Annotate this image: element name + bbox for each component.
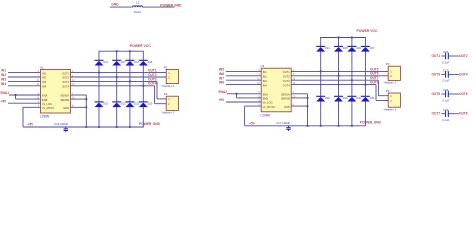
node IN6 (219, 72, 224, 76)
wire (226, 79, 261, 81)
junction (320, 125, 322, 127)
IC U2 L298N (41, 69, 71, 113)
value Header 2 (162, 111, 175, 115)
svg-text:L298N: L298N (261, 113, 271, 117)
capacitor C16 100uF (54, 122, 69, 132)
node OUT3 (432, 72, 441, 76)
diode D27 (361, 46, 375, 51)
capacitor C29 (443, 108, 449, 117)
svg-text:IN3: IN3 (263, 79, 268, 83)
junction (129, 126, 131, 128)
svg-text:OUT8: OUT8 (459, 112, 468, 116)
svg-text:D29: D29 (343, 97, 348, 100)
wire (244, 106, 246, 126)
svg-text:OUT1: OUT1 (148, 69, 157, 73)
wire (142, 51, 144, 60)
designator U2 (40, 65, 44, 69)
svg-text:C17 100uF: C17 100uF (276, 121, 291, 125)
svg-text:D23: D23 (148, 103, 153, 106)
connector P3 Header 2 (388, 66, 400, 80)
wire (71, 94, 87, 96)
svg-text:IN1: IN1 (1, 69, 6, 73)
wire (351, 38, 353, 47)
IC U3 L298N (261, 68, 291, 112)
diode D29 (334, 96, 348, 101)
node IN7 (219, 76, 224, 80)
node OUT5 (432, 92, 441, 96)
power port POWER VCC (357, 29, 378, 33)
wire (71, 76, 167, 78)
junction (306, 105, 308, 107)
svg-text:D21: D21 (121, 103, 126, 106)
node ENA2 (219, 90, 228, 94)
wire (236, 94, 238, 98)
node OUT3 (148, 77, 157, 81)
svg-text:OUT4: OUT4 (148, 82, 157, 86)
wire (448, 113, 459, 115)
svg-text:GND: GND (63, 106, 69, 110)
wire (364, 102, 366, 126)
wire (226, 70, 261, 72)
wire (226, 84, 261, 86)
designator P4 (386, 89, 390, 93)
svg-text:D20: D20 (103, 103, 108, 106)
svg-text:POWER_GND: POWER_GND (139, 122, 161, 126)
value 0.1uF (442, 98, 449, 102)
junction (116, 50, 118, 52)
junction (116, 126, 118, 128)
wire (441, 93, 445, 95)
wire (351, 102, 353, 126)
wire (320, 38, 322, 47)
diode D21 (112, 102, 126, 107)
wire (291, 70, 388, 72)
svg-text:D16: D16 (103, 61, 108, 64)
wire (110, 6, 133, 8)
value Header 2 (384, 81, 397, 85)
svg-text:OUT7: OUT7 (370, 76, 379, 80)
wire (8, 85, 41, 87)
wire (291, 84, 376, 86)
svg-text:ENA: ENA (42, 94, 48, 98)
wire (226, 75, 261, 77)
svg-text:C28: C28 (443, 88, 449, 92)
svg-text:ENB: ENB (42, 98, 48, 102)
node OUT1 (148, 69, 157, 73)
wire (143, 6, 175, 8)
diode D19 (139, 60, 153, 65)
diode D24 (316, 46, 330, 51)
node IN2 (1, 73, 6, 77)
wire (307, 94, 309, 126)
connector P2 Header 2 (166, 96, 178, 110)
wire (71, 72, 167, 74)
value 10uH (134, 10, 141, 14)
svg-text:IN2: IN2 (42, 76, 47, 80)
svg-text:SENSB: SENSB (281, 97, 290, 101)
svg-text:D17: D17 (121, 61, 126, 64)
node OUT5 (370, 67, 379, 71)
node IN4 (1, 82, 6, 86)
svg-text:L1: L1 (136, 1, 140, 5)
junction (351, 36, 353, 38)
svg-text:POWER VCC: POWER VCC (130, 44, 151, 48)
svg-text:0.1uF: 0.1uF (442, 118, 449, 122)
node IN3 (1, 78, 6, 82)
node +5V (1, 99, 8, 103)
wire (142, 107, 144, 127)
svg-text:GND: GND (111, 2, 119, 6)
svg-text:OUT2: OUT2 (283, 75, 290, 79)
svg-text:U3: U3 (260, 64, 264, 68)
svg-text:OUT3: OUT3 (432, 72, 441, 76)
value 0.1uF (442, 60, 449, 64)
wire POWER VCC rail (320, 37, 366, 39)
junction (85, 98, 87, 100)
wire (448, 73, 459, 75)
node OUT8 (459, 112, 468, 116)
power port POWER_GND (139, 122, 161, 126)
wire (116, 66, 118, 102)
wire (227, 93, 261, 95)
svg-text:D31: D31 (370, 97, 375, 100)
svg-text:Vs_MOTO: Vs_MOTO (42, 106, 54, 110)
svg-text:POWER VCC: POWER VCC (357, 29, 378, 33)
wire (9, 94, 41, 96)
wire (8, 102, 41, 104)
svg-text:ENA2: ENA2 (219, 90, 228, 94)
wire (338, 52, 340, 97)
diode D25 (334, 46, 348, 51)
svg-text:Vs_MOTO: Vs_MOTO (263, 105, 275, 109)
junction (306, 125, 308, 127)
svg-text:IN8: IN8 (219, 81, 224, 85)
diode D20 (95, 102, 109, 107)
svg-text:OUT6: OUT6 (459, 92, 468, 96)
svg-text:OUT1: OUT1 (62, 71, 69, 75)
junction (129, 50, 131, 52)
wire (237, 97, 262, 99)
svg-text:IN4: IN4 (1, 82, 6, 86)
svg-text:ENB: ENB (263, 97, 269, 101)
junction (351, 125, 353, 127)
svg-text:IN1: IN1 (42, 71, 47, 75)
diode D28 (316, 96, 330, 101)
svg-text:10uH: 10uH (134, 10, 141, 14)
wire (142, 66, 144, 102)
wire (375, 85, 377, 101)
svg-text:IN4: IN4 (263, 83, 268, 87)
svg-text:0.1uF: 0.1uF (442, 60, 449, 64)
wire (378, 95, 388, 97)
svg-text:IN1: IN1 (263, 70, 268, 74)
designator P3 (386, 62, 390, 66)
wire (291, 97, 307, 99)
diode D23 (139, 102, 153, 107)
svg-text:0.1uF: 0.1uF (442, 79, 449, 83)
svg-text:P3: P3 (386, 62, 390, 66)
wire (71, 98, 87, 100)
junction (337, 125, 339, 127)
svg-text:+5V: +5V (28, 123, 35, 127)
svg-text:Header 2: Header 2 (384, 81, 397, 85)
svg-text:D22: D22 (134, 103, 139, 106)
wire (291, 79, 378, 81)
wire (291, 75, 388, 77)
svg-text:IN3: IN3 (42, 80, 47, 84)
wire (448, 55, 459, 57)
svg-text:OUT1: OUT1 (432, 54, 441, 58)
wire (441, 73, 445, 75)
wire (98, 51, 100, 60)
node OUT7 (370, 76, 379, 80)
svg-text:IN5: IN5 (219, 68, 224, 72)
junction (306, 97, 308, 99)
diode D16 (95, 60, 109, 65)
node OUT1 (432, 54, 441, 58)
wire (338, 102, 340, 126)
wire (155, 103, 167, 105)
wire POWER_GND rail (23, 126, 144, 128)
svg-text:D19: D19 (148, 61, 153, 64)
node +5V (219, 98, 226, 102)
wire (291, 105, 307, 107)
node OUT2 (459, 54, 468, 58)
wire (116, 107, 118, 127)
svg-text:P4: P4 (386, 89, 390, 93)
svg-text:D25: D25 (343, 47, 348, 50)
value Header 2 (162, 84, 175, 88)
svg-text:D24: D24 (325, 47, 330, 50)
svg-text:C26: C26 (443, 50, 449, 54)
node OUT6 (370, 72, 379, 76)
node GND (top) (111, 2, 119, 6)
designator P1 (164, 65, 168, 69)
junction (364, 84, 366, 86)
svg-text:P1: P1 (164, 65, 168, 69)
svg-text:GND: GND (284, 105, 290, 109)
node OUT4 (459, 72, 468, 76)
junction (129, 80, 131, 82)
wire (22, 107, 24, 127)
svg-text:IN3: IN3 (1, 78, 6, 82)
wire (16, 98, 41, 100)
designator P2 (164, 92, 168, 96)
junction (337, 75, 339, 77)
connector P1 Header 2 (166, 69, 178, 83)
U2 pin numbers (36, 70, 75, 108)
svg-text:0.1uF: 0.1uF (442, 98, 449, 102)
svg-text:OUT4: OUT4 (459, 72, 468, 76)
svg-text:OUT1: OUT1 (283, 70, 290, 74)
wire (129, 66, 131, 102)
svg-text:OUT6: OUT6 (370, 72, 379, 76)
node IN1 (1, 69, 6, 73)
svg-text:POWER GND: POWER GND (160, 3, 182, 7)
svg-text:C27: C27 (443, 69, 449, 73)
svg-text:OUT7: OUT7 (432, 112, 441, 116)
svg-text:IN6: IN6 (219, 72, 224, 76)
svg-text:OUT4: OUT4 (62, 85, 69, 89)
wire (98, 107, 100, 127)
wire (156, 81, 158, 99)
svg-text:OUT5: OUT5 (370, 67, 379, 71)
svg-text:OUT4: OUT4 (283, 83, 290, 87)
junction (98, 126, 100, 128)
wire (377, 80, 379, 96)
node ENA1 (1, 91, 10, 95)
diode D22 (125, 102, 139, 107)
value 0.1uF (442, 79, 449, 83)
svg-text:OUT3: OUT3 (283, 79, 290, 83)
wire (8, 80, 41, 82)
wire (8, 72, 41, 74)
svg-text:ENA: ENA (263, 93, 269, 97)
wire (157, 98, 166, 100)
wire (245, 105, 262, 107)
junction (85, 106, 87, 108)
wire (376, 100, 388, 102)
wire (71, 106, 87, 108)
wire (71, 80, 158, 82)
junction (235, 93, 237, 95)
svg-text:OUT5: OUT5 (432, 92, 441, 96)
value 0.1uF (442, 118, 449, 122)
diode D26 (347, 46, 361, 51)
wire POWER VCC rail (99, 50, 144, 52)
svg-text:+5V: +5V (249, 121, 256, 125)
power port POWER_GND (360, 121, 382, 125)
svg-text:C16 100uF: C16 100uF (54, 122, 69, 126)
U3 pin numbers (257, 69, 296, 107)
node +5V (28, 123, 35, 127)
svg-text:OUT2: OUT2 (148, 73, 157, 77)
wire (320, 52, 322, 97)
svg-text:Header 2: Header 2 (384, 107, 397, 111)
wire (320, 102, 322, 126)
diode D30 (347, 96, 361, 101)
svg-text:OUT2: OUT2 (62, 76, 69, 80)
capacitor C28 (443, 88, 449, 97)
svg-text:OUT2: OUT2 (459, 54, 468, 58)
svg-text:Header 2: Header 2 (162, 84, 175, 88)
wire (351, 52, 353, 97)
svg-text:U2: U2 (40, 65, 44, 69)
svg-text:C29: C29 (443, 108, 449, 112)
wire (338, 38, 340, 47)
wire (116, 51, 118, 60)
designator U3 (260, 64, 264, 68)
wire (23, 106, 41, 108)
junction (85, 126, 87, 128)
node OUT7 (432, 112, 441, 116)
wire (129, 107, 131, 127)
wire (441, 113, 445, 115)
svg-text:SENSA: SENSA (281, 93, 290, 97)
svg-text:+5V: +5V (219, 98, 226, 102)
svg-text:OUT8: OUT8 (370, 81, 379, 85)
junction (14, 94, 16, 96)
capacitor C17 100uF (276, 121, 291, 131)
inductor L1 (133, 1, 143, 8)
junction (320, 70, 322, 72)
wire (448, 93, 459, 95)
node IN8 (219, 81, 224, 85)
node IN5 (219, 68, 224, 72)
svg-text:D18: D18 (134, 61, 139, 64)
wire (15, 95, 17, 99)
node OUT4 (148, 82, 157, 86)
diode D31 (361, 96, 375, 101)
wire (364, 52, 366, 97)
svg-text:IN7: IN7 (219, 76, 224, 80)
svg-text:Vs_LOG: Vs_LOG (263, 101, 273, 105)
svg-text:D30: D30 (356, 97, 361, 100)
svg-text:OUT3: OUT3 (148, 77, 157, 81)
svg-text:POWER_GND: POWER_GND (360, 121, 382, 125)
svg-text:D27: D27 (370, 47, 375, 50)
wire (154, 86, 156, 104)
wire (85, 95, 87, 127)
svg-text:IN2: IN2 (263, 75, 268, 79)
node OUT6 (459, 92, 468, 96)
node +5V (249, 121, 256, 125)
value L298N (40, 115, 50, 119)
svg-text:D28: D28 (325, 97, 330, 100)
svg-text:SENSB: SENSB (60, 98, 69, 102)
junction (337, 36, 339, 38)
svg-text:IN2: IN2 (1, 73, 6, 77)
wire (226, 101, 261, 103)
svg-text:D26: D26 (356, 47, 361, 50)
wire (441, 55, 445, 57)
svg-text:P2: P2 (164, 92, 168, 96)
junction (351, 79, 353, 81)
svg-text:OUT3: OUT3 (62, 80, 69, 84)
svg-text:ENA1: ENA1 (1, 91, 10, 95)
svg-text:IN4: IN4 (42, 85, 47, 89)
diode D17 (112, 60, 126, 65)
power port POWER VCC (130, 44, 151, 48)
svg-text:Header 2: Header 2 (162, 111, 175, 115)
junction (142, 85, 144, 87)
value Header 2 (384, 107, 397, 111)
capacitor C27 (443, 69, 449, 78)
junction (98, 72, 100, 74)
node OUT2 (148, 73, 157, 77)
diode D18 (125, 60, 139, 65)
capacitor C26 (443, 50, 449, 59)
svg-text:Vs_LOG: Vs_LOG (42, 102, 52, 106)
wire (129, 51, 131, 60)
wire (98, 66, 100, 102)
junction (116, 76, 118, 78)
value L298N (261, 113, 271, 117)
power port POWER GND (top) (160, 3, 182, 7)
wire (8, 76, 41, 78)
wire POWER_GND rail (245, 125, 366, 127)
wire (71, 85, 155, 87)
svg-text:L298N: L298N (40, 115, 50, 119)
svg-text:SENSA: SENSA (60, 94, 69, 98)
node OUT8 (370, 81, 379, 85)
svg-text:+5V: +5V (1, 99, 8, 103)
connector P4 Header 2 (388, 93, 400, 107)
wire (291, 93, 307, 95)
wire (364, 38, 366, 47)
